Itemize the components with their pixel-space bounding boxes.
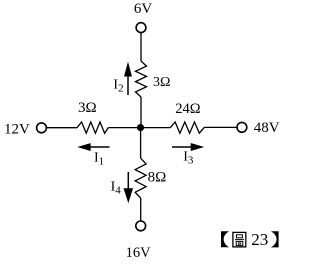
svg-text:12V: 12V [4,121,30,137]
svg-text:I2: I2 [113,78,123,95]
svg-text:16V: 16V [126,245,152,261]
svg-text:23: 23 [251,230,268,249]
svg-text:24Ω: 24Ω [175,101,201,117]
svg-text:3Ω: 3Ω [78,100,97,116]
svg-text:6V: 6V [134,1,153,17]
svg-text:I3: I3 [183,150,194,167]
svg-text:3Ω: 3Ω [153,75,170,90]
svg-text:8Ω: 8Ω [148,170,167,186]
svg-text:48V: 48V [254,120,280,136]
svg-text:I4: I4 [111,180,122,197]
svg-text:I1: I1 [94,151,104,168]
